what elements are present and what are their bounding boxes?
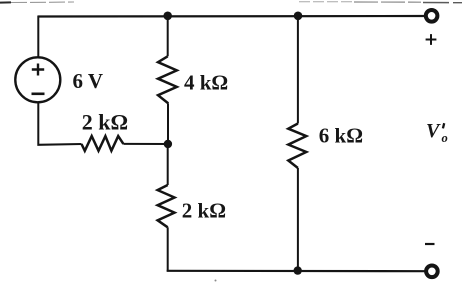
minus sign inside source: [32, 93, 45, 96]
svg-text:2 kΩ: 2 kΩ: [182, 198, 226, 222]
svg-text:4 kΩ: 4 kΩ: [184, 71, 228, 95]
scan speck: [215, 280, 217, 282]
node: top junction dot over 6k branch: [294, 12, 303, 21]
resistor R 2kOhm vertical: [158, 185, 175, 227]
wire: source bottom stub down to middle horizontal wire: [38, 102, 81, 145]
plus sign inside source: [32, 64, 44, 76]
svg-text:6 kΩ: 6 kΩ: [319, 124, 363, 148]
wire: 4k branch top stub: [167, 16, 169, 57]
wire: 4k branch bottom stub to middle node: [167, 103, 169, 144]
resistor R 4kOhm vertical: [158, 56, 177, 103]
node: bottom junction dot: [294, 266, 302, 274]
wire: from horizontal resistor to middle node: [123, 143, 168, 145]
terminal: top-right open circle: [426, 10, 438, 22]
polarity minus at output: [425, 243, 435, 245]
resistor R 6kOhm vertical: [288, 124, 306, 169]
node: middle junction dot: [164, 140, 172, 148]
wire: left vertical from top rail down to source top: [37, 16, 39, 59]
node: top junction dot over 4k branch: [163, 12, 172, 21]
polarity plus at output: [426, 34, 437, 45]
svg-text:2 kΩ: 2 kΩ: [82, 109, 128, 134]
wire: 2k vertical branch top stub from middle node: [167, 144, 169, 185]
wire: 6k branch top stub: [297, 16, 299, 124]
svg-text:V: V: [426, 120, 441, 142]
resistor R 2kOhm horizontal: [82, 136, 124, 151]
wire: bottom rail from 2k corner to bottom-right terminal: [167, 270, 425, 273]
wire: 2k vertical bottom stub to bottom rail corner: [167, 227, 169, 271]
svg-text:6 V: 6 V: [73, 69, 104, 93]
terminal: bottom-right open circle: [426, 266, 438, 278]
page rule top-left segment: [0, 1, 74, 4]
svg-text:o: o: [442, 131, 448, 145]
wire: top rail from source corner to top-right terminal: [38, 15, 424, 18]
page rule top-right segment: [299, 2, 462, 3]
voltage source V1 6V circle: [15, 57, 60, 102]
wire: 6k branch bottom stub to bottom rail: [297, 168, 299, 271]
